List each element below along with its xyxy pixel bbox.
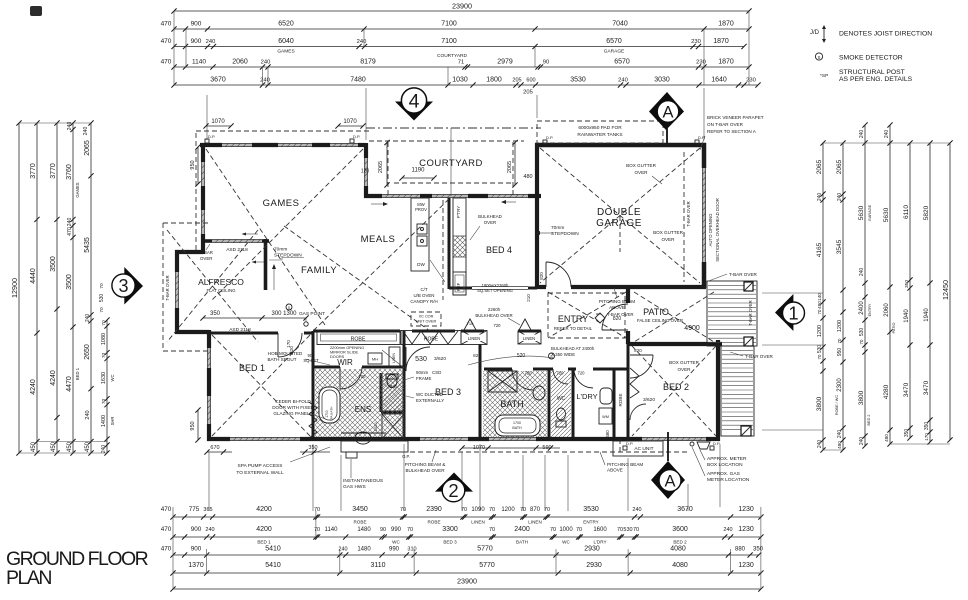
ceiling X bed1	[212, 335, 310, 436]
svg-text:2060: 2060	[232, 59, 248, 66]
svg-text:SPA BATH: SPA BATH	[330, 407, 334, 422]
wall: games/family step	[203, 239, 212, 243]
wall: garage south	[537, 285, 706, 289]
svg-text:70: 70	[314, 527, 320, 533]
svg-text:CSD: CSD	[432, 370, 441, 375]
door arc bed1	[278, 333, 302, 357]
svg-text:70: 70	[99, 283, 105, 289]
wall: alfresco west	[175, 250, 179, 272]
svg-text:2: 2	[448, 480, 458, 501]
svg-text:530: 530	[415, 356, 427, 363]
svg-text:3770: 3770	[30, 163, 37, 179]
wall: wir/ens divider	[313, 366, 340, 369]
svg-text:2300: 2300	[837, 378, 843, 392]
svg-text:1080: 1080	[101, 333, 107, 345]
svg-text:1140: 1140	[325, 527, 339, 533]
ceiling X games	[206, 149, 325, 325]
svg-text:1070: 1070	[343, 119, 357, 125]
svg-text:2650: 2650	[84, 344, 91, 360]
svg-text:INSTANTANEOUS: INSTANTANEOUS	[343, 478, 383, 484]
svg-text:REFER TO SECTION A: REFER TO SECTION A	[707, 129, 757, 134]
step arrow left top	[246, 233, 258, 235]
svg-text:480: 480	[605, 430, 610, 438]
svg-text:3545: 3545	[836, 239, 843, 254]
meter circle	[690, 442, 694, 446]
svg-text:70: 70	[101, 320, 107, 326]
svg-text:BOX GUTTER: BOX GUTTER	[653, 230, 684, 235]
ceiling X bed2	[632, 346, 716, 436]
svg-text:APPROX. METER: APPROX. METER	[707, 456, 747, 462]
svg-text:1230: 1230	[738, 526, 754, 533]
section marker 2 bottom	[435, 473, 473, 492]
svg-text:AC UNIT: AC UNIT	[634, 446, 653, 452]
family arrow up	[273, 268, 275, 290]
svg-text:350: 350	[753, 547, 764, 553]
svg-text:OVER: OVER	[634, 170, 648, 175]
svg-text:240: 240	[206, 39, 216, 45]
svg-text:3500: 3500	[50, 256, 57, 272]
svg-text:3530: 3530	[570, 77, 586, 84]
svg-text:BULKHEAD AT 2400h: BULKHEAD AT 2400h	[551, 346, 595, 351]
svg-text:70: 70	[99, 307, 105, 313]
svg-text:2390: 2390	[426, 506, 442, 513]
svg-text:820: 820	[634, 348, 642, 353]
svg-text:OVER: OVER	[677, 367, 691, 372]
svg-text:T-BAR OVER: T-BAR OVER	[745, 354, 774, 359]
svg-text:ROBE: ROBE	[427, 520, 440, 525]
svg-text:WC: WC	[557, 396, 566, 402]
svg-text:4: 4	[409, 91, 420, 113]
svg-text:240: 240	[632, 507, 641, 513]
svg-text:SECTIONAL OVERHEAD DOOR: SECTIONAL OVERHEAD DOOR	[715, 198, 720, 262]
svg-text:6570: 6570	[614, 59, 630, 66]
smoke detector family	[286, 304, 292, 310]
svg-text:6000x950 PAD FOR: 6000x950 PAD FOR	[578, 125, 622, 131]
slider triangles	[464, 319, 476, 330]
svg-text:520: 520	[517, 353, 526, 359]
dimension row top 2	[174, 28, 749, 30]
svg-text:UNIT OVER: UNIT OVER	[416, 320, 437, 324]
svg-text:1800: 1800	[486, 77, 502, 84]
wall: bed2 north	[628, 342, 722, 346]
svg-text:240: 240	[205, 527, 214, 533]
wall: bed2 east	[716, 340, 720, 441]
svg-text:70: 70	[489, 527, 495, 533]
svg-text:1200: 1200	[501, 507, 515, 513]
svg-text:5435: 5435	[84, 237, 91, 253]
svg-text:GAMES: GAMES	[75, 182, 80, 197]
svg-text:1: 1	[788, 303, 798, 324]
svg-text:720: 720	[557, 371, 565, 376]
svg-text:T-BAR OVER: T-BAR OVER	[748, 300, 753, 325]
svg-text:470: 470	[161, 546, 172, 553]
svg-text:1230: 1230	[738, 506, 754, 513]
bath basin	[533, 386, 545, 400]
right dim column R6	[929, 143, 931, 442]
svg-text:BED 1: BED 1	[75, 367, 80, 380]
svg-text:70: 70	[550, 527, 556, 533]
svg-text:BED 4: BED 4	[486, 245, 512, 255]
svg-text:71: 71	[458, 60, 464, 66]
patio deck upper strip	[707, 281, 757, 346]
svg-text:3800: 3800	[816, 396, 823, 411]
svg-text:1070: 1070	[211, 119, 225, 125]
wc enclosure ens	[380, 373, 383, 412]
svg-text:CEDER BI-FOLD: CEDER BI-FOLD	[275, 399, 311, 404]
svg-text:3770: 3770	[50, 163, 57, 179]
dimension row bottom 2	[173, 536, 761, 538]
ens vanity	[341, 432, 386, 434]
ldry trough	[600, 388, 612, 404]
svg-text:350: 350	[210, 311, 221, 317]
svg-text:D.P.: D.P.	[546, 135, 553, 140]
svg-text:1870: 1870	[718, 59, 734, 66]
svg-text:METER LOCATION: METER LOCATION	[707, 477, 750, 483]
svg-text:EXTERNALLY: EXTERNALLY	[416, 398, 444, 403]
svg-text:BATH: BATH	[500, 399, 523, 409]
wall: alfresco north	[175, 250, 203, 254]
svg-text:5410: 5410	[265, 546, 281, 553]
svg-text:DOORS: DOORS	[330, 354, 345, 359]
svg-text:710: 710	[467, 321, 474, 326]
svg-text:210: 210	[526, 294, 531, 302]
door arc bed3	[406, 347, 430, 371]
bottom block vertical connectors	[172, 507, 174, 589]
svg-text:900: 900	[191, 38, 202, 45]
svg-text:70: 70	[407, 527, 413, 533]
svg-text:240: 240	[101, 445, 107, 454]
wall: bed3/bath divider	[479, 344, 482, 439]
svg-text:ASD 2118: ASD 2118	[229, 327, 251, 333]
svg-text:U/B OVEN: U/B OVEN	[414, 293, 435, 298]
hws box	[346, 452, 357, 458]
svg-text:BRICK VENEER PARAPET: BRICK VENEER PARAPET	[707, 115, 764, 120]
svg-text:470: 470	[161, 526, 172, 533]
svg-text:5630: 5630	[858, 205, 865, 220]
svg-text:4165: 4165	[816, 242, 823, 257]
svg-text:6570: 6570	[606, 38, 622, 45]
robe bed2 zigzag bifold	[630, 368, 639, 398]
svg-text:1870: 1870	[718, 21, 734, 28]
door arc garage south to entry	[546, 262, 571, 287]
svg-text:BED 1: BED 1	[239, 363, 265, 373]
entry dashed rect	[548, 293, 625, 338]
wall: bed4 south	[449, 287, 472, 290]
svg-text:ENTRY: ENTRY	[583, 520, 599, 525]
svg-text:1200: 1200	[817, 325, 823, 337]
svg-text:900: 900	[191, 526, 202, 533]
svg-text:BATH: BATH	[516, 540, 528, 545]
wall: bed1/wir divider	[312, 331, 315, 439]
svg-text:365: 365	[203, 507, 212, 513]
right block connectors	[823, 142, 950, 144]
svg-text:WM: WM	[602, 415, 609, 419]
svg-text:OVER: OVER	[200, 256, 212, 261]
svg-text:PATIO: PATIO	[643, 307, 669, 317]
svg-text:REF: REF	[456, 282, 461, 291]
svg-text:70: 70	[101, 353, 107, 359]
svg-text:480: 480	[837, 441, 842, 449]
left dim column D	[72, 123, 74, 453]
svg-text:2065: 2065	[84, 140, 91, 156]
svg-text:2260h: 2260h	[488, 307, 501, 312]
svg-text:WC DUCTED: WC DUCTED	[416, 392, 443, 397]
right dim column R4	[889, 125, 891, 444]
ceiling X patio	[634, 292, 714, 342]
wall: bath/wc divider	[548, 369, 551, 439]
svg-text:990: 990	[391, 527, 402, 533]
legend smoke detector	[815, 53, 822, 60]
svg-text:STEPDOWN: STEPDOWN	[274, 253, 302, 259]
svg-text:3030: 3030	[654, 77, 670, 84]
svg-text:4900: 4900	[684, 325, 700, 332]
svg-text:PLAN: PLAN	[6, 567, 51, 589]
svg-text:BOX GUTTER: BOX GUTTER	[669, 360, 700, 365]
svg-text:530: 530	[859, 328, 865, 337]
arrows meals	[371, 203, 383, 205]
svg-text:23900: 23900	[452, 2, 472, 11]
svg-text:530: 530	[817, 345, 823, 354]
svg-text:480: 480	[523, 174, 532, 180]
right dim column R5	[909, 143, 911, 438]
svg-text:A: A	[662, 104, 673, 122]
svg-text:240: 240	[859, 437, 865, 446]
porch step square	[741, 426, 751, 436]
ac unit	[613, 441, 663, 456]
door arc bath	[512, 369, 533, 390]
svg-text:3450: 3450	[352, 506, 368, 513]
svg-text:ENTRY: ENTRY	[868, 303, 872, 316]
svg-text:D.P.: D.P.	[713, 441, 720, 446]
garage box gutter dash	[683, 152, 685, 282]
svg-text:4200: 4200	[256, 506, 272, 513]
svg-text:OVER: OVER	[484, 220, 496, 225]
wc small tiles	[551, 371, 571, 437]
svg-text:240: 240	[261, 60, 271, 66]
svg-text:BULKHEAD OVER: BULKHEAD OVER	[475, 313, 512, 318]
svg-text:7100: 7100	[441, 21, 457, 28]
svg-text:4080: 4080	[672, 562, 688, 569]
svg-text:350: 350	[924, 422, 930, 431]
bifold zigzag bed1	[309, 402, 317, 438]
svg-text:3: 3	[118, 276, 128, 296]
svg-text:23900: 23900	[457, 577, 477, 586]
svg-text:GAMES: GAMES	[277, 49, 294, 55]
svg-text:450: 450	[67, 441, 73, 452]
svg-text:90: 90	[543, 60, 549, 66]
svg-text:70: 70	[633, 527, 639, 533]
svg-text:APPROX. GAS: APPROX. GAS	[707, 471, 740, 477]
svg-text:3470: 3470	[923, 380, 930, 395]
wall: wc/ldry divider	[572, 369, 575, 439]
svg-text:*SP: *SP	[820, 73, 828, 79]
svg-text:PROV: PROV	[415, 207, 427, 212]
svg-text:1090: 1090	[471, 507, 485, 513]
pitching beam dash	[619, 439, 621, 453]
ceiling X entry	[548, 292, 626, 338]
svg-text:L'DRY: L'DRY	[576, 392, 597, 401]
wall: bed1 west	[207, 330, 211, 348]
svg-text:T-BAR OVER: T-BAR OVER	[165, 275, 170, 300]
svg-text:WC: WC	[389, 384, 398, 390]
svg-text:480: 480	[884, 434, 889, 442]
svg-text:240: 240	[67, 218, 73, 227]
section marker A top	[649, 92, 684, 130]
svg-text:3600: 3600	[672, 526, 688, 533]
svg-text:120: 120	[361, 169, 370, 175]
svg-text:1370: 1370	[188, 562, 204, 569]
step arrow left low	[256, 261, 264, 263]
svg-text:70: 70	[817, 309, 822, 314]
svg-text:LINEN: LINEN	[468, 336, 480, 341]
svg-text:70: 70	[576, 527, 582, 533]
svg-text:WC: WC	[110, 375, 115, 382]
eave dashes games	[196, 130, 372, 132]
dimension row bottom 1	[173, 516, 761, 518]
svg-text:X 350 WIDE: X 350 WIDE	[551, 352, 575, 357]
svg-text:TO EXTERNAL WALL: TO EXTERNAL WALL	[236, 470, 284, 476]
svg-text:450: 450	[85, 441, 91, 452]
svg-text:BED 2: BED 2	[673, 540, 687, 545]
svg-text:8179: 8179	[360, 59, 376, 66]
svg-text:450: 450	[51, 441, 57, 452]
svg-text:CANOPY R/H: CANOPY R/H	[410, 299, 437, 304]
ceiling X garage	[540, 148, 700, 283]
svg-text:70: 70	[101, 399, 107, 405]
front door arc	[602, 304, 628, 330]
svg-text:820: 820	[613, 316, 622, 322]
wall: games/courtyard east	[364, 143, 368, 158]
svg-text:BULKHEAD OVER: BULKHEAD OVER	[405, 468, 445, 473]
svg-text:240: 240	[618, 78, 628, 84]
scan mark top-left	[30, 6, 42, 16]
ldry washer	[599, 408, 612, 424]
svg-text:350: 350	[904, 280, 910, 288]
dp marks	[205, 139, 209, 143]
svg-text:WC: WC	[562, 540, 570, 545]
svg-text:6520: 6520	[278, 21, 294, 28]
svg-text:BATH: BATH	[512, 426, 522, 430]
svg-text:7040: 7040	[612, 21, 628, 28]
svg-text:3/620: 3/620	[643, 397, 655, 403]
section marker A bottom	[651, 461, 685, 499]
courtyard inner dashed rect	[369, 140, 524, 142]
svg-text:820: 820	[539, 272, 544, 280]
svg-text:450: 450	[31, 441, 37, 452]
wall: bed1 north	[209, 332, 278, 335]
svg-text:1140: 1140	[192, 59, 206, 66]
svg-text:1000: 1000	[559, 527, 573, 533]
courtyard boundary dash-dot	[366, 127, 541, 129]
svg-text:DENOTES JOIST DIRECTION: DENOTES JOIST DIRECTION	[839, 31, 932, 38]
alfresco dashed outline	[162, 223, 164, 351]
svg-text:GARAGE: GARAGE	[604, 49, 625, 55]
svg-text:ROBE: ROBE	[424, 337, 439, 343]
svg-text:2065: 2065	[816, 159, 823, 174]
svg-text:2065: 2065	[836, 159, 843, 174]
svg-text:ENTRY: ENTRY	[558, 314, 588, 324]
svg-text:950: 950	[190, 421, 196, 430]
svg-text:REFER TO DETAIL: REFER TO DETAIL	[554, 326, 593, 331]
wall: games north	[200, 143, 222, 147]
svg-text:240: 240	[85, 314, 91, 323]
svg-text:70mm: 70mm	[274, 247, 287, 253]
wall: bed4 west (kitchen)	[448, 198, 451, 289]
left dim column 12900	[18, 123, 20, 453]
svg-text:ROBE / WC: ROBE / WC	[835, 395, 839, 416]
mh box wir	[368, 353, 382, 364]
svg-text:WIR: WIR	[337, 358, 353, 367]
svg-text:DOOR WITH FIXED: DOOR WITH FIXED	[272, 405, 314, 410]
ceiling X alfresco	[167, 230, 258, 342]
svg-text:240: 240	[837, 193, 843, 202]
svg-text:3470: 3470	[903, 382, 910, 397]
svg-text:1230: 1230	[738, 562, 754, 569]
svg-text:BED 1: BED 1	[257, 540, 271, 545]
svg-text:880: 880	[735, 547, 746, 553]
svg-text:3670: 3670	[210, 77, 226, 84]
left dim column F partial	[106, 320, 108, 453]
door arc ldry	[574, 369, 593, 388]
svg-text:3800: 3800	[858, 390, 865, 405]
svg-text:3530: 3530	[583, 506, 599, 513]
svg-text:70: 70	[314, 507, 320, 513]
robe box wir	[317, 331, 400, 345]
svg-text:90mm: 90mm	[416, 370, 429, 375]
svg-text:205: 205	[523, 90, 533, 96]
svg-text:1030: 1030	[452, 77, 468, 84]
svg-text:COURTYARD: COURTYARD	[437, 53, 467, 59]
svg-text:240: 240	[859, 130, 865, 139]
linen strip wir	[389, 347, 400, 367]
svg-text:600: 600	[526, 78, 535, 84]
svg-text:170: 170	[924, 433, 929, 441]
pad dashed rect	[537, 121, 663, 143]
svg-text:GAS POINT: GAS POINT	[299, 311, 325, 317]
svg-text:ROBE: ROBE	[618, 393, 623, 406]
svg-text:1940: 1940	[904, 309, 910, 323]
svg-text:3500: 3500	[66, 274, 73, 290]
dash line under south wing	[410, 451, 690, 453]
svg-text:70: 70	[400, 507, 406, 513]
svg-text:530: 530	[99, 294, 105, 303]
svg-text:1630: 1630	[101, 372, 107, 384]
svg-text:530: 530	[623, 527, 632, 533]
svg-text:BED 3: BED 3	[443, 540, 457, 545]
svg-text:PITCHING BEAM: PITCHING BEAM	[599, 299, 635, 304]
svg-text:FALSE CEILING OVER: FALSE CEILING OVER	[637, 318, 683, 323]
svg-text:2930: 2930	[586, 562, 602, 569]
svg-text:4240: 4240	[30, 379, 37, 395]
svg-text:P'TRY: P'TRY	[456, 206, 461, 219]
svg-text:1400: 1400	[101, 415, 107, 427]
dimension row top 5	[174, 84, 758, 86]
svg-text:STRUCTURAL POST: STRUCTURAL POST	[839, 69, 905, 76]
robe box bed3	[401, 331, 461, 345]
bath tub	[495, 415, 540, 436]
svg-text:7100: 7100	[441, 38, 457, 45]
wc ens tiles	[381, 373, 404, 412]
svg-text:L'DRY: L'DRY	[593, 540, 606, 545]
svg-text:1480: 1480	[357, 527, 371, 533]
svg-text:12900: 12900	[10, 278, 19, 298]
bath tiles	[483, 371, 547, 437]
svg-text:C/T: C/T	[420, 287, 427, 292]
spa bath	[319, 387, 340, 423]
svg-text:870: 870	[530, 507, 541, 513]
svg-text:GAMES: GAMES	[263, 198, 300, 209]
bath wc toilet	[557, 408, 566, 420]
